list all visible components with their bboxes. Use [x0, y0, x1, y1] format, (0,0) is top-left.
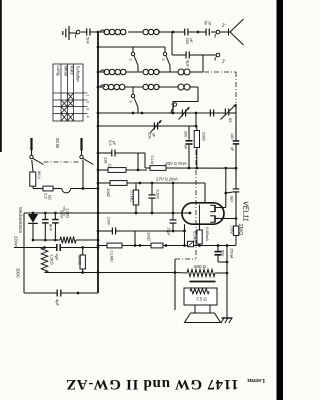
- coil L8 osc: [178, 84, 190, 90]
- wire rail y213: [24, 212, 182, 214]
- capacitor 6uF: [172, 52, 203, 59]
- svg-text:3: 3: [86, 108, 90, 110]
- svg-text:100Ω: 100Ω: [78, 255, 83, 265]
- wire 600 to gnd bus: [215, 272, 227, 274]
- resistor 100: [80, 248, 85, 273]
- node row3-bus: [97, 71, 100, 74]
- node grid231: [183, 230, 186, 233]
- svg-text:20V 0,7mA: 20V 0,7mA: [164, 161, 187, 166]
- trimmer 55: [221, 104, 237, 120]
- resistor 2M plate: [233, 226, 238, 236]
- coil L4: [143, 69, 159, 74]
- label 2M plate: [237, 224, 243, 236]
- node row4-bus: [97, 86, 100, 89]
- label 2 at S2: [161, 59, 165, 61]
- wire row y231: [98, 230, 185, 232]
- table digit 1: [86, 95, 90, 97]
- wire rail y293: [24, 292, 98, 294]
- svg-text:1MΩ: 1MΩ: [147, 232, 152, 241]
- node 245 g: [226, 244, 229, 247]
- table X mittel-4: [61, 113, 68, 121]
- table X mittel-3: [61, 107, 68, 114]
- table row line 1: [53, 99, 88, 101]
- node bus113 d: [195, 112, 198, 115]
- svg-text:4µF: 4µF: [55, 299, 60, 307]
- svg-text:Ω: Ω: [108, 164, 112, 167]
- label 6.5nF: [156, 190, 160, 200]
- mains pin 2: [80, 138, 82, 151]
- table X kurz-4: [68, 113, 74, 121]
- coil L7: [143, 84, 159, 89]
- label 0.5uF: [108, 140, 116, 146]
- capacitor 5nF antenna-ground: [81, 29, 98, 36]
- svg-text:55: 55: [228, 118, 233, 123]
- resistor 2M osc grid: [194, 126, 199, 168]
- node 245 f: [217, 244, 220, 247]
- border black bar right edge: [277, 0, 284, 400]
- resistor 12k: [108, 168, 126, 173]
- node 168 a: [188, 167, 191, 170]
- terminal A1: [215, 30, 224, 37]
- label 0.1M c: [110, 251, 114, 262]
- label 8nF plate: [230, 196, 234, 203]
- svg-text:6,5nF: 6,5nF: [156, 190, 160, 200]
- node 170: [137, 169, 140, 172]
- tube anode2 lead: [215, 218, 224, 220]
- node rail247 c: [81, 246, 84, 249]
- resistor 1.5k zigzag: [41, 248, 47, 273]
- wire osc loopback: [173, 87, 198, 113]
- tube anode2 electrode: [210, 216, 215, 223]
- svg-text:8nF: 8nF: [49, 224, 54, 231]
- wire crossover dip: [62, 189, 71, 193]
- wire grid2 lead: [204, 183, 206, 203]
- resistor 0.1M c: [107, 243, 122, 248]
- label 1,9k: [66, 208, 70, 218]
- label 176V: [230, 225, 234, 234]
- svg-text:1,9kΩ: 1,9kΩ: [66, 208, 70, 218]
- output transformer box: [184, 288, 217, 305]
- node plate 193: [224, 192, 227, 195]
- label 8nF: [49, 224, 54, 231]
- table header Kurz: [70, 66, 75, 76]
- wire row y170: [98, 169, 147, 171]
- svg-text:Lorenz: Lorenz: [247, 377, 265, 383]
- resistor 0.1M det: [150, 166, 166, 171]
- wire left column: [23, 213, 25, 293]
- wire bus y113: [98, 112, 236, 114]
- tube VEL11 envelope: [182, 203, 224, 224]
- coil L5 osc: [178, 69, 190, 75]
- node rail240 bus: [97, 239, 100, 242]
- speaker magnet: [195, 305, 210, 313]
- wire bus y126: [98, 125, 196, 127]
- node rail247 bus: [97, 246, 100, 249]
- wire row y245.5: [98, 245, 236, 247]
- svg-text:2: 2: [129, 59, 133, 61]
- node 231 corner: [134, 230, 136, 232]
- wire osc riser: [202, 55, 204, 72]
- node 168 b: [195, 167, 198, 170]
- label Wechselstrom: [18, 207, 23, 233]
- label A1: [222, 23, 227, 28]
- svg-text:1MΩ: 1MΩ: [106, 188, 111, 197]
- coil L1 antenna: [104, 29, 126, 35]
- svg-text:2: 2: [161, 59, 165, 61]
- node bus 273: [97, 271, 100, 274]
- rectifier diode: [28, 213, 38, 240]
- wire rail y271: [45, 272, 99, 274]
- wire top row: [98, 31, 173, 33]
- svg-text:Lang: Lang: [56, 66, 61, 77]
- svg-text:2MΩ: 2MΩ: [202, 132, 207, 141]
- svg-text:VEL11: VEL11: [242, 201, 249, 222]
- switch S2 kurz: [163, 52, 170, 71]
- annotation 20V 0,7mA: [164, 161, 187, 166]
- node mains bus join: [97, 187, 100, 190]
- main bus: [97, 32, 99, 293]
- svg-text:Kurz: Kurz: [70, 66, 75, 76]
- label 6,3V: [62, 206, 67, 217]
- wire 231 corner: [134, 231, 136, 246]
- node ant-coil junction: [172, 31, 175, 34]
- label 4uF b: [55, 299, 60, 307]
- node osc-junction: [197, 31, 200, 34]
- label 15mA: [230, 248, 235, 259]
- capacitor 300pF: [174, 29, 196, 36]
- label 10nF: [107, 217, 111, 226]
- wire row4: [98, 86, 198, 88]
- tube cathode wire: [182, 212, 192, 215]
- table col line 0: [60, 64, 62, 121]
- capacitor 25nF b: [52, 213, 59, 240]
- node diode top: [32, 212, 35, 215]
- wire pole2 down: [82, 160, 84, 189]
- coil hook row4: [100, 85, 104, 87]
- svg-text:15mA: 15mA: [230, 248, 235, 259]
- node rail240 d1: [44, 239, 47, 242]
- table digit 3: [86, 108, 90, 110]
- node bus113 a: [132, 112, 135, 115]
- switch contact antenna: [75, 30, 80, 38]
- svg-text:5nF: 5nF: [221, 250, 225, 257]
- svg-text:6µF: 6µF: [186, 60, 191, 68]
- coil L2 antenna: [143, 29, 159, 34]
- svg-text:300: 300: [184, 131, 188, 137]
- node bus 47: [97, 46, 100, 49]
- label 3 at S4: [170, 103, 174, 105]
- node 183 a: [139, 182, 142, 185]
- label 500pF: [148, 132, 156, 139]
- node bus top: [97, 31, 100, 34]
- svg-text:1,5kΩ: 1,5kΩ: [50, 254, 55, 265]
- capacitor 300pF osc grid: [186, 141, 193, 144]
- node 168 d: [235, 167, 238, 170]
- node 168 c: [224, 167, 227, 170]
- node 245 bus: [97, 244, 100, 247]
- wire grid drop: [188, 126, 190, 168]
- wire plate riser: [224, 168, 226, 207]
- node rail240 diode: [32, 239, 35, 242]
- label 300V: [16, 268, 21, 278]
- svg-text:2: 2: [86, 101, 90, 103]
- resistor 1M b: [151, 243, 163, 248]
- label 1.5k: [50, 254, 55, 265]
- svg-text:0,1MΩ: 0,1MΩ: [193, 231, 197, 242]
- capacitor osc pad: [210, 110, 213, 117]
- node 245 e: [198, 244, 201, 247]
- label 12k: [104, 157, 112, 167]
- wire speaker feed: [98, 272, 187, 275]
- table digit 4: [86, 116, 90, 118]
- wire mains row y188: [33, 188, 98, 190]
- label 7.5: [196, 297, 207, 302]
- svg-text:220V≈: 220V≈: [14, 236, 19, 249]
- label 20W: [55, 138, 60, 149]
- label 15uF: [167, 227, 171, 236]
- wire row y183: [98, 182, 205, 184]
- label 5nF: [86, 37, 91, 44]
- switch S1 kurz: [131, 47, 138, 72]
- node right bus 218: [235, 217, 238, 220]
- wire row2 corner: [164, 47, 166, 52]
- tube anode1 electrode: [210, 205, 215, 212]
- wire A2 riser: [171, 33, 173, 56]
- resistor 0.1M b: [133, 183, 138, 213]
- right bus mid: [235, 145, 237, 189]
- label 2 at S1: [129, 59, 133, 61]
- band table frame: [53, 64, 83, 121]
- chassis ground: [221, 318, 233, 323]
- node bus 231: [97, 230, 100, 233]
- speaker cone: [185, 313, 221, 323]
- node rail271 b: [81, 271, 84, 274]
- svg-text:10nF: 10nF: [107, 217, 111, 226]
- coil L6: [103, 84, 125, 90]
- node bus126: [195, 125, 198, 128]
- svg-text:8nF: 8nF: [230, 196, 234, 203]
- wire 153 corner: [138, 153, 145, 170]
- variable capacitor gang2: [151, 120, 162, 133]
- node 262: [226, 261, 229, 264]
- wire gang link: [195, 113, 197, 126]
- resistor 1M a: [110, 181, 127, 186]
- label 4uF a: [55, 254, 60, 262]
- svg-text:kΩ: kΩ: [48, 195, 52, 200]
- node 245 d: [183, 244, 186, 247]
- mains pin 1: [30, 138, 32, 151]
- svg-text:17V 0,1mA: 17V 0,1mA: [156, 177, 178, 182]
- coil L3: [104, 69, 126, 75]
- wire row3: [98, 71, 203, 73]
- right bus lower: [235, 193, 237, 227]
- label 5nF out: [221, 250, 225, 257]
- node 245 c: [165, 244, 168, 247]
- label 1M a: [106, 188, 111, 197]
- node rail247 a: [43, 246, 46, 249]
- antenna A: [224, 19, 244, 45]
- switch S3 mittel: [131, 87, 138, 113]
- svg-text:0,1MΩ: 0,1MΩ: [130, 191, 134, 202]
- node rail213 d1: [44, 212, 47, 215]
- node 231 b: [172, 230, 175, 233]
- svg-text:0,1M: 0,1M: [150, 156, 154, 164]
- label VEL11: [242, 201, 249, 222]
- label 4 at S3: [129, 101, 133, 103]
- ground symbol antenna: [63, 26, 77, 40]
- capacitor 4uF b: [57, 290, 61, 297]
- node 273 gnd: [226, 272, 229, 275]
- node 170-bus: [97, 169, 100, 172]
- svg-text:Mittel: Mittel: [64, 66, 69, 77]
- wire plate to cap: [226, 192, 233, 193]
- svg-text:4: 4: [86, 116, 90, 118]
- svg-text:160: 160: [230, 133, 234, 139]
- label 220V: [14, 236, 19, 249]
- wire rail y240: [33, 239, 98, 241]
- table col line 1: [67, 64, 69, 121]
- node 153-bus: [97, 152, 100, 155]
- capacitor 8nF a: [42, 213, 49, 240]
- node bus113 b: [141, 112, 144, 115]
- wire screen lead: [224, 218, 236, 220]
- resistor 0.85mA bias: [197, 223, 202, 246]
- svg-text:A₁: A₁: [222, 23, 227, 28]
- terminal P pickup: [188, 241, 194, 246]
- node 245 a: [134, 244, 137, 247]
- node rail240 d2: [54, 239, 57, 242]
- switch link dash-dot: [44, 161, 81, 163]
- fuse 86,4: [30, 172, 36, 189]
- node bus113 c: [172, 112, 175, 115]
- tube anode1 lead: [215, 207, 224, 209]
- node 183 c: [172, 182, 175, 185]
- label 25nF: [60, 210, 64, 219]
- svg-text:A₂: A₂: [222, 59, 227, 64]
- resistor 1.9k zigzag: [60, 237, 76, 244]
- title 1147 GW und II GW-AZ: [65, 376, 238, 392]
- node right bus 168: [235, 167, 238, 170]
- node 183 b: [151, 182, 154, 185]
- output transformer secondary 7.5: [190, 289, 209, 294]
- label 300pF: [185, 38, 193, 45]
- mains switch pole1: [30, 151, 44, 165]
- tube grid electrode: [199, 205, 201, 223]
- label 6uF: [186, 60, 191, 68]
- svg-text:3: 3: [170, 103, 174, 105]
- svg-text:1: 1: [86, 95, 90, 97]
- right bus upper: [235, 105, 237, 140]
- border black line left edge: [0, 0, 2, 152]
- coil hook row3: [100, 70, 104, 72]
- label 0.1M bias: [193, 231, 197, 242]
- terminal A2: [215, 53, 220, 60]
- node rail213 a: [135, 212, 138, 215]
- wire grid lead tube: [184, 224, 186, 245]
- capacitor 160pF: [233, 141, 240, 144]
- svg-text:25nF: 25nF: [60, 210, 64, 219]
- svg-text:300V: 300V: [16, 268, 21, 278]
- svg-text:0,85mA: 0,85mA: [205, 227, 210, 241]
- node 245 b: [139, 244, 142, 247]
- wire pole1 down: [32, 160, 33, 172]
- node spk feed: [174, 271, 177, 274]
- capacitor 50pF: [198, 29, 216, 36]
- svg-text:1147 GW und II GW-AZ: 1147 GW und II GW-AZ: [65, 376, 238, 392]
- svg-text:600 Ω: 600 Ω: [194, 264, 206, 269]
- table digit 2: [86, 101, 90, 103]
- table X kurz-2: [68, 100, 74, 107]
- node rail213 b: [151, 212, 154, 215]
- node rail293: [77, 292, 80, 295]
- svg-text:7,5 Ω: 7,5 Ω: [196, 297, 207, 302]
- coil hook row1: [100, 30, 104, 32]
- label 600: [194, 264, 206, 269]
- svg-text:12k: 12k: [104, 157, 109, 163]
- node 183-bus: [97, 182, 100, 185]
- capacitor 0.5uF: [112, 150, 115, 157]
- node bus 126: [97, 125, 100, 128]
- node rail213 d2: [54, 212, 57, 215]
- svg-text:86,4: 86,4: [37, 171, 42, 180]
- table header Lang: [56, 66, 61, 77]
- field coil core bar: [190, 281, 216, 283]
- wire volume drop: [174, 259, 176, 310]
- wire avc link: [172, 183, 174, 213]
- wire row2: [98, 46, 165, 48]
- label 0.85mA: [205, 227, 210, 241]
- svg-text:15µF: 15µF: [167, 227, 171, 236]
- label 50pF: [204, 21, 212, 27]
- variable capacitor gang1: [179, 107, 190, 120]
- node bus113 bus: [97, 112, 100, 115]
- label 160pF: [230, 133, 234, 152]
- mains switch pole2: [80, 151, 94, 165]
- label 55: [228, 118, 233, 123]
- capacitor 5nF out: [215, 246, 228, 263]
- wire row y153: [98, 152, 138, 154]
- dash-dot volume link: [175, 258, 196, 260]
- dash-dot gang vertical mid: [195, 150, 197, 259]
- table header Schalter: [76, 66, 81, 83]
- label 1M b: [147, 232, 152, 241]
- table row line 2: [53, 106, 88, 108]
- table X mittel-2: [61, 100, 68, 107]
- svg-text:5nF: 5nF: [86, 37, 91, 44]
- svg-text:20 W: 20 W: [55, 138, 60, 149]
- svg-text:0,1MΩ: 0,1MΩ: [110, 251, 114, 262]
- table header Mittel: [64, 66, 69, 77]
- label 2.5k: [44, 193, 52, 200]
- wire row y168 (detector out): [145, 167, 236, 169]
- svg-text:Wechselstrom: Wechselstrom: [18, 207, 23, 233]
- label 100: [78, 255, 83, 265]
- label 300pF osc: [184, 131, 188, 150]
- label A2: [222, 59, 227, 64]
- table X kurz-1: [68, 93, 74, 100]
- wire A2: [203, 54, 216, 56]
- label 0.1M b: [130, 191, 134, 202]
- node mains pole2 join: [82, 187, 85, 190]
- table row line 0: [53, 92, 88, 94]
- svg-text:176V: 176V: [230, 225, 234, 234]
- svg-text:2MΩ: 2MΩ: [237, 224, 243, 236]
- title Lorenz: [247, 377, 265, 383]
- node rail213 bus: [97, 212, 100, 215]
- capacitor 4uF a: [57, 244, 60, 251]
- resistor 600 field coil: [187, 269, 215, 276]
- label 0.1M det: [150, 156, 154, 164]
